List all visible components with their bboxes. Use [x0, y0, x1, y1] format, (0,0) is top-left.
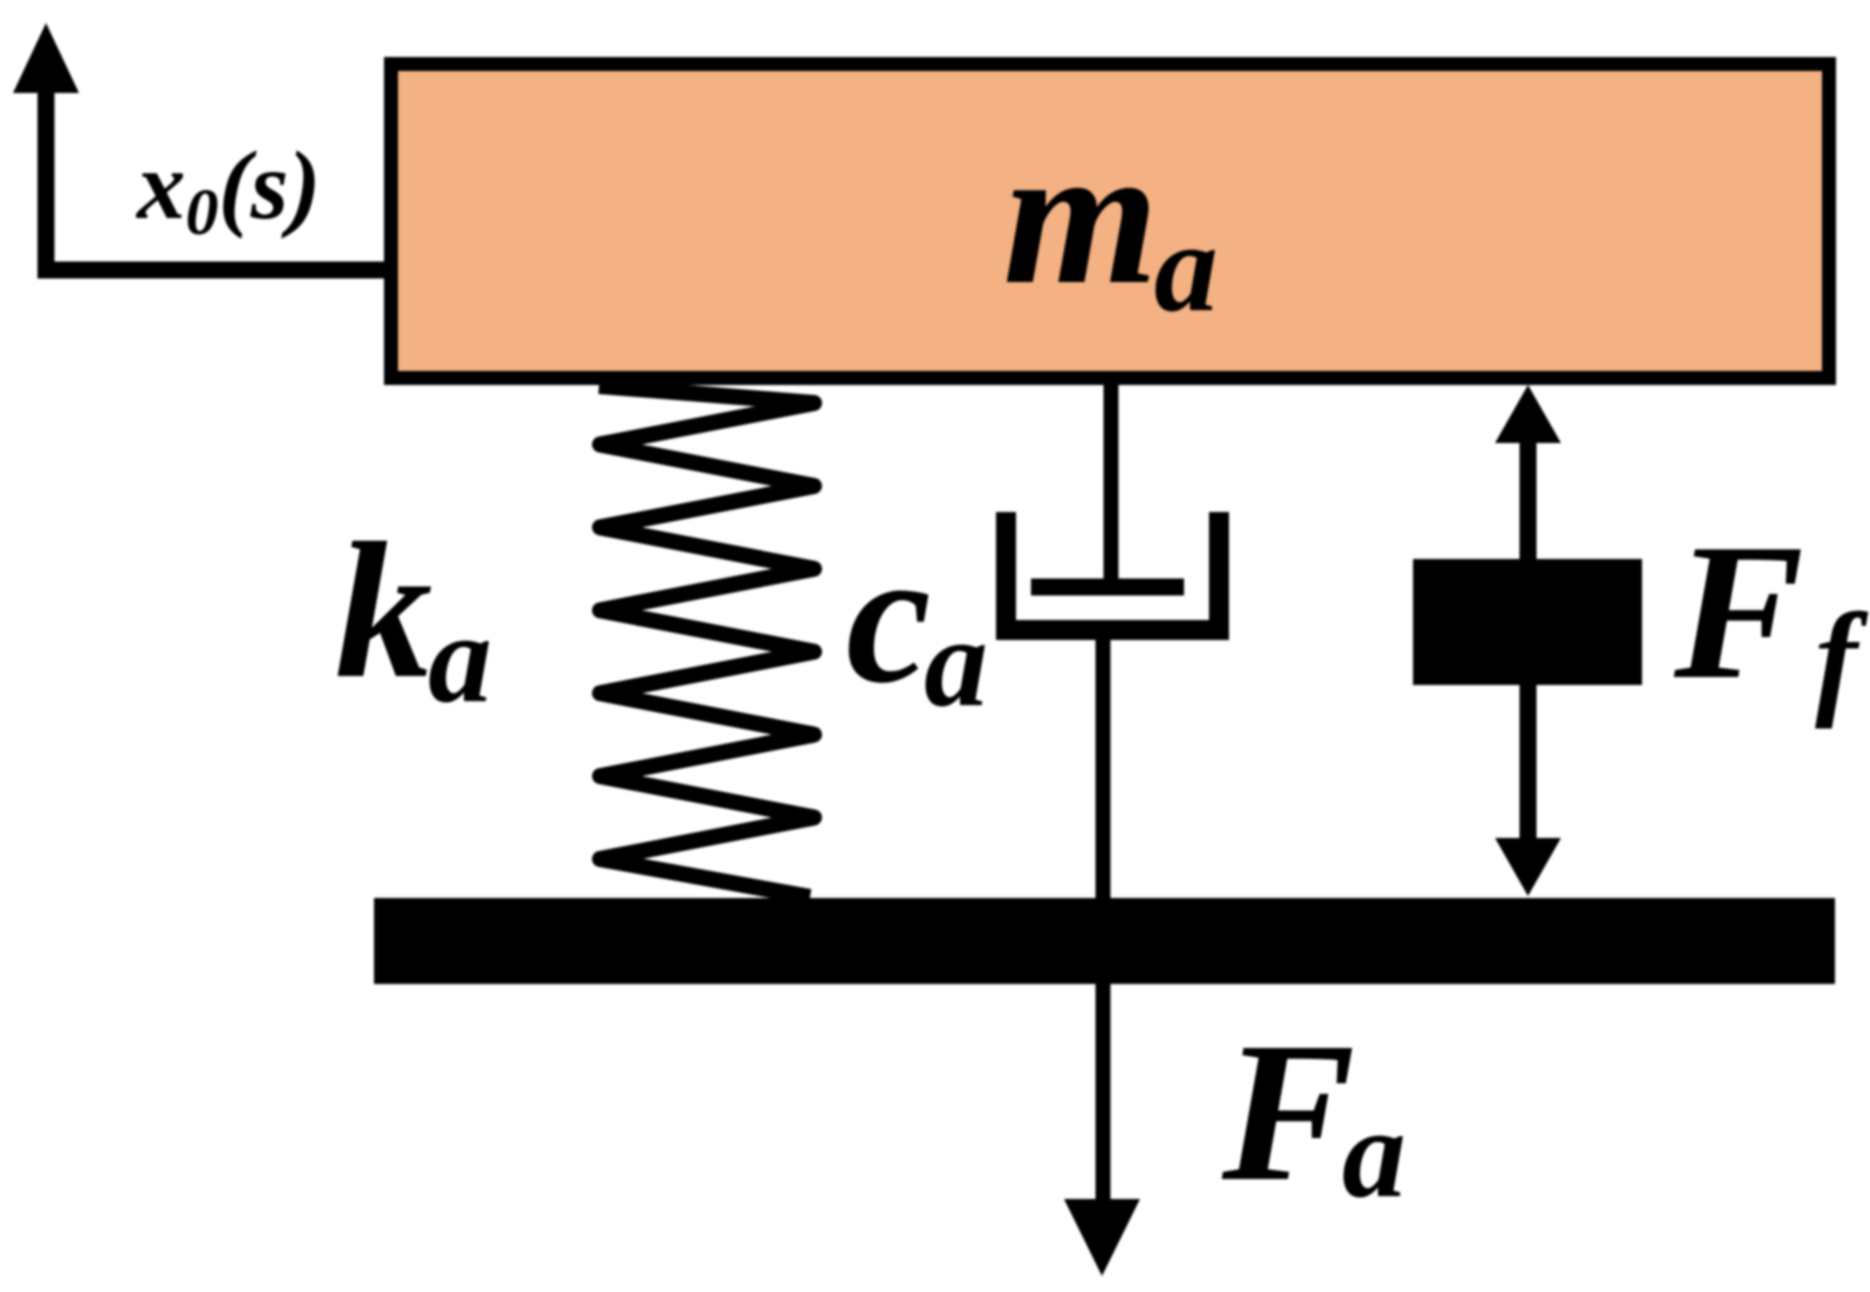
Ff down arrowhead	[1495, 838, 1561, 896]
damper ca: cylinder cup	[1006, 512, 1219, 630]
svg-text:k: k	[335, 503, 433, 719]
svg-text:a: a	[1342, 1082, 1406, 1224]
friction force Ff double arrow shaft	[1520, 435, 1537, 845]
ground bar	[374, 898, 1835, 984]
svg-text:F: F	[1221, 1002, 1355, 1223]
svg-text:a: a	[428, 587, 492, 729]
friction block	[1413, 559, 1642, 685]
spring ka	[599, 386, 814, 897]
wire: x0(s) reference axis (L-shaped line to mass)	[46, 90, 391, 270]
svg-text:f: f	[1815, 587, 1869, 729]
Ff up arrowhead	[1495, 385, 1561, 443]
node: x0(s) up arrowhead	[13, 23, 79, 93]
svg-text:m: m	[1003, 105, 1159, 326]
damper ca: piston plate	[1031, 579, 1184, 596]
svg-text:a: a	[924, 591, 988, 733]
mass ma block	[391, 64, 1829, 378]
svg-text:c: c	[846, 510, 931, 723]
Fa down arrowhead	[1064, 1199, 1140, 1276]
svg-text:F: F	[1673, 504, 1804, 720]
damper ca: lower rod through ground bar to Fa arrow	[1096, 640, 1111, 1210]
svg-text:a: a	[1154, 196, 1218, 338]
damper ca: piston rod (top)	[1104, 378, 1119, 588]
svg-text:x0(s): x0(s)	[135, 132, 321, 249]
